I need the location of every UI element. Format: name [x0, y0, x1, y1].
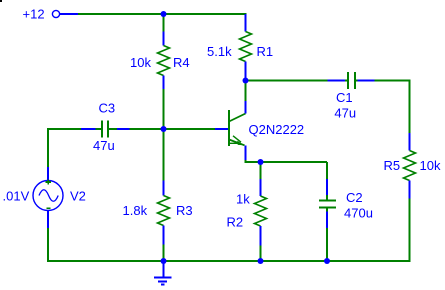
svg-text:1.8k: 1.8k: [123, 203, 148, 218]
wire C1 to right branch: [375, 81, 410, 134]
wire R3 to rail: [163, 245, 165, 262]
svg-text:R3: R3: [176, 203, 193, 218]
ground: [154, 261, 172, 285]
svg-text:C3: C3: [99, 100, 116, 115]
svg-text:47u: 47u: [93, 138, 115, 153]
svg-text:V2: V2: [70, 189, 86, 204]
svg-text:470u: 470u: [344, 206, 373, 221]
capacitor C2: [319, 179, 373, 228]
wire V2 to bottom rail: [47, 228, 49, 262]
source V2: [3, 167, 86, 228]
svg-text:+12: +12: [23, 7, 45, 22]
svg-text:Q2N2222: Q2N2222: [249, 122, 305, 137]
wire R4 to node B: [163, 89, 165, 129]
svg-text:.01V: .01V: [3, 189, 30, 204]
svg-text:R2: R2: [227, 215, 244, 230]
wire base: [164, 128, 216, 130]
junction collector node: [243, 78, 249, 84]
wire C3 to node B: [130, 128, 164, 130]
wire C3 left + left branch: [48, 129, 81, 167]
power port +12: [23, 7, 79, 22]
svg-text:1k: 1k: [236, 192, 250, 207]
resistor R2: [227, 179, 267, 246]
svg-text:C1: C1: [336, 90, 353, 105]
svg-text:5.1k: 5.1k: [207, 44, 232, 59]
junction R2 bottom: [258, 258, 264, 264]
junction C2 bottom: [324, 258, 330, 264]
capacitor C3: [81, 100, 130, 153]
svg-text:R1: R1: [257, 44, 274, 59]
wire right branch lower: [409, 199, 411, 263]
svg-text:10k: 10k: [420, 158, 441, 173]
wire C2 to rail: [326, 228, 328, 261]
junction ground: [161, 258, 167, 264]
resistor R4: [130, 32, 190, 90]
svg-text:R5: R5: [384, 158, 401, 173]
wire top rail: [78, 13, 247, 15]
wire R4 top stub: [163, 14, 165, 32]
svg-text:10k: 10k: [130, 55, 151, 70]
wire R2 to rail: [260, 246, 262, 262]
junction emitter node: [258, 159, 264, 165]
wire collector: [245, 81, 247, 102]
wire R2 stub: [260, 162, 262, 179]
transistor Q2: [215, 101, 304, 160]
resistor R3: [123, 181, 193, 245]
capacitor C1: [328, 72, 375, 120]
node B junction: [161, 126, 167, 132]
svg-text:R4: R4: [173, 55, 190, 70]
svg-text:C2: C2: [346, 190, 363, 205]
wire C2 stub: [326, 162, 328, 179]
resistor R1: [207, 14, 273, 81]
wire emitter rail: [246, 160, 328, 162]
wire node B to R3: [163, 129, 165, 181]
wire collector node to C1: [246, 80, 328, 82]
junction top of R4: [161, 11, 167, 17]
svg-text:47u: 47u: [334, 105, 356, 120]
resistor R5: [384, 133, 441, 199]
wire bottom rail: [48, 260, 410, 262]
